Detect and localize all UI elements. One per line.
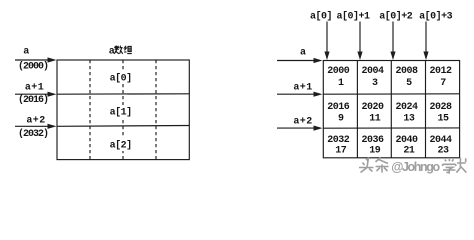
- pointer label a+2: [26, 116, 45, 127]
- cell address 2032: [327, 135, 350, 146]
- address label (2032): [18, 128, 48, 140]
- svg-text:a: a: [300, 48, 306, 59]
- svg-text:1: 1: [338, 78, 344, 89]
- svg-text:(2032): (2032): [18, 128, 48, 140]
- cell address 2016: [327, 102, 350, 113]
- title glyph 数: [114, 46, 123, 54]
- svg-text:9: 9: [338, 114, 344, 125]
- watermark glyph 学: [443, 159, 456, 173]
- svg-text:a[0]+3: a[0]+3: [419, 10, 453, 22]
- svg-text:a: a: [109, 47, 115, 58]
- dashed column line 1: [89, 60, 91, 160]
- svg-text:a: a: [23, 47, 29, 58]
- column label a[0]: [310, 10, 332, 22]
- left array diagram title a: [109, 47, 115, 58]
- svg-text:13: 13: [403, 114, 415, 125]
- svg-text:2004: 2004: [361, 66, 384, 77]
- svg-text:3: 3: [372, 78, 378, 89]
- svg-text:23: 23: [437, 146, 449, 157]
- svg-text:17: 17: [335, 146, 347, 157]
- svg-text:2008: 2008: [395, 66, 418, 77]
- watermark glyph 长: [456, 158, 466, 173]
- right arrow a+2: [277, 126, 323, 131]
- svg-text:21: 21: [403, 146, 415, 157]
- down arrow 2: [357, 22, 362, 61]
- right grid row line 1: [323, 93, 459, 95]
- cell address 2020: [361, 102, 384, 113]
- svg-text:2000: 2000: [327, 66, 350, 77]
- cell value 19: [369, 146, 381, 157]
- svg-text:15: 15: [437, 114, 449, 125]
- title glyph 组: [124, 46, 132, 54]
- svg-text:a[0]+1: a[0]+1: [336, 10, 370, 22]
- cell value 7: [440, 78, 446, 89]
- address label (2000): [18, 61, 48, 73]
- cell address 2028: [429, 102, 452, 113]
- svg-text:@Johngo: @Johngo: [391, 160, 440, 174]
- cell label a[1]: [108, 105, 134, 118]
- pointer label a+1: [25, 82, 44, 93]
- dashed column line 3: [155, 60, 157, 160]
- cell value 5: [406, 78, 412, 89]
- down arrow 3: [390, 22, 395, 61]
- right grid column line 1: [356, 61, 358, 158]
- svg-text:a+2: a+2: [26, 116, 45, 127]
- svg-text:a+1: a+1: [293, 83, 312, 94]
- cell address 2000: [327, 66, 350, 77]
- arrow a+1: [15, 92, 57, 97]
- dashed column line 2: [122, 60, 124, 160]
- cell value 23: [437, 146, 449, 157]
- left table row line 2: [57, 125, 189, 128]
- cell value 21: [403, 146, 415, 157]
- svg-text:a+2: a+2: [293, 116, 312, 127]
- svg-text:(2000): (2000): [18, 61, 48, 73]
- cell address 2008: [395, 66, 418, 77]
- cell value 3: [372, 78, 378, 89]
- right pointer label a+1: [293, 83, 312, 94]
- address label (2016): [18, 94, 48, 106]
- pointer label a: [23, 47, 29, 58]
- svg-text:2032: 2032: [327, 135, 350, 146]
- svg-text:2040: 2040: [395, 135, 418, 146]
- svg-text:2036: 2036: [361, 135, 384, 146]
- cell value 9: [338, 114, 344, 125]
- arrow a+2: [15, 124, 57, 129]
- svg-text:19: 19: [369, 146, 381, 157]
- svg-text:a+1: a+1: [25, 82, 44, 93]
- cell address 2044: [429, 135, 452, 146]
- cell value 17: [335, 146, 347, 157]
- cell label a[2]: [108, 138, 134, 152]
- svg-text:2044: 2044: [429, 135, 452, 146]
- svg-text:a[0]: a[0]: [310, 10, 332, 22]
- svg-text:2028: 2028: [429, 102, 452, 113]
- cell address 2024: [395, 102, 418, 113]
- svg-text:a[1]: a[1]: [110, 106, 132, 118]
- watermark text @Johngo: [391, 160, 440, 174]
- cell address 2012: [429, 66, 452, 77]
- right arrow a+1: [277, 92, 323, 97]
- cell value 1: [338, 78, 344, 89]
- right arrow a: [277, 58, 323, 63]
- right grid column line 3: [425, 61, 427, 158]
- svg-text:7: 7: [440, 78, 446, 89]
- watermark glyph 条: [376, 158, 389, 173]
- cell value 15: [437, 114, 449, 125]
- cell value 11: [369, 114, 381, 125]
- down arrow 1: [324, 22, 329, 61]
- watermark glyph 头: [359, 158, 374, 173]
- cell address 2036: [361, 135, 384, 146]
- svg-text:2020: 2020: [361, 102, 384, 113]
- svg-text:5: 5: [406, 78, 412, 89]
- right pointer label a+2: [293, 116, 312, 127]
- svg-text:2024: 2024: [395, 102, 418, 113]
- right pointer label a: [300, 48, 306, 59]
- right grid row line 2: [323, 127, 459, 129]
- column label a[0]+1: [336, 10, 370, 22]
- right grid frame: [323, 61, 459, 158]
- cell address 2004: [361, 66, 384, 77]
- left table row line 1: [57, 93, 189, 95]
- svg-text:a[0]: a[0]: [110, 73, 132, 85]
- cell value 13: [403, 114, 415, 125]
- left table frame: [57, 60, 189, 160]
- down arrow 4: [423, 22, 428, 61]
- svg-text:a[2]: a[2]: [110, 140, 132, 152]
- svg-text:11: 11: [369, 114, 381, 125]
- svg-text:(2016): (2016): [18, 94, 48, 106]
- column label a[0]+2: [379, 10, 413, 22]
- svg-text:2012: 2012: [429, 66, 452, 77]
- cell address 2040: [395, 135, 418, 146]
- svg-text:a[0]+2: a[0]+2: [379, 10, 413, 22]
- column label a[0]+3: [419, 10, 453, 22]
- right grid column line 2: [390, 61, 392, 158]
- svg-text:2016: 2016: [327, 102, 350, 113]
- arrow a: [15, 57, 57, 62]
- cell label a[0]: [108, 71, 134, 85]
